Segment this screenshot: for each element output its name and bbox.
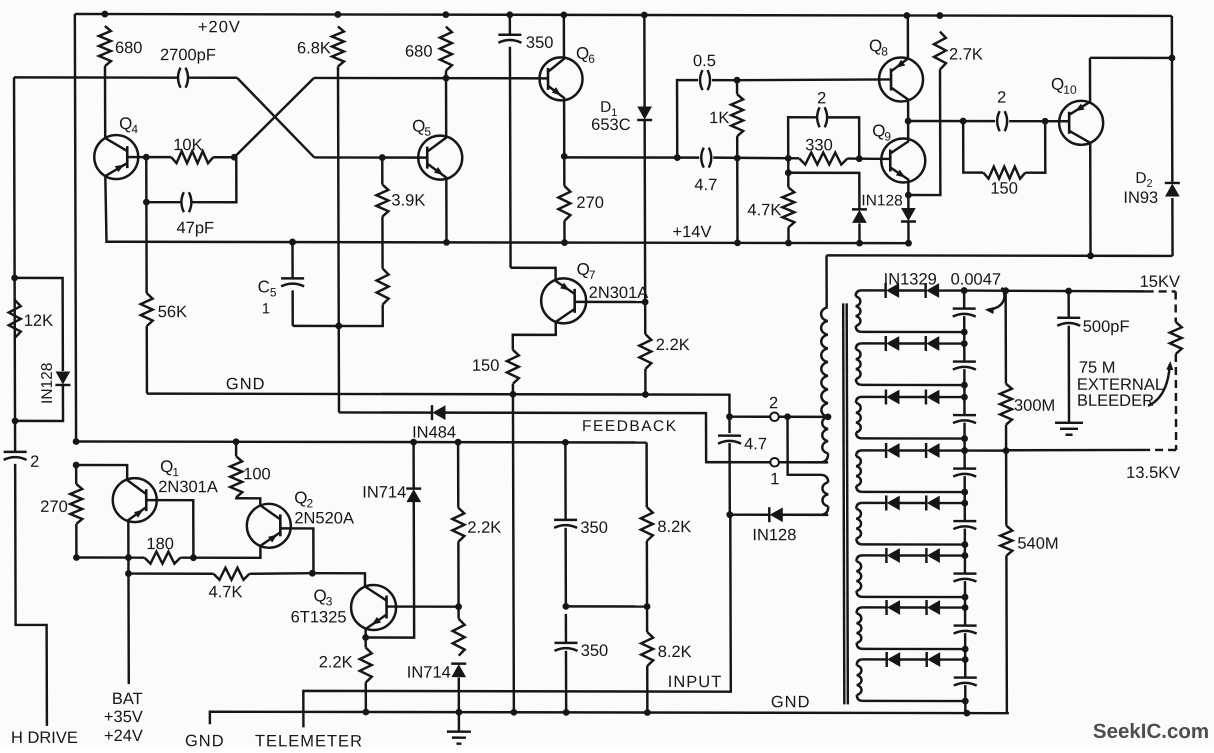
svg-text:INPUT: INPUT [668, 673, 723, 691]
svg-text:IN128: IN128 [39, 363, 56, 404]
node dot Q1 collector branch [73, 462, 80, 469]
wire 2.7K column [908, 69, 940, 195]
capacitor 2700pF [178, 68, 188, 88]
label 4.7 vertical [744, 435, 767, 453]
wire ladder mid link [566, 605, 647, 608]
label BLEEDER [1077, 392, 1154, 410]
capacitor 4.7 vertical [718, 417, 741, 515]
svg-text:7: 7 [589, 268, 596, 282]
wire FEEDBACK line right [445, 413, 770, 463]
transistor Q4 base bar [126, 146, 129, 168]
diode IN128 bottom [769, 507, 782, 522]
label 4.7 series [694, 176, 717, 194]
wire 680 to Q4 collector [104, 66, 107, 138]
svg-text:5: 5 [424, 125, 431, 139]
capacitors 0.0047 stack [953, 309, 977, 686]
transistor Q3 base bar [385, 596, 388, 619]
wire 4.7K line [128, 573, 312, 574]
wire secondary 5 bottom [862, 543, 965, 546]
svg-text:270: 270 [40, 498, 68, 516]
svg-text:0.0047: 0.0047 [951, 271, 1002, 289]
svg-text:270: 270 [576, 194, 604, 212]
node dot Q6 emitter node [561, 153, 568, 160]
capacitor 500pF [1057, 318, 1080, 326]
diode D1 [637, 107, 652, 120]
svg-text:13.5KV: 13.5KV [1126, 464, 1180, 482]
node dot Q7 base [642, 299, 649, 306]
node dot stage 4 bottom [961, 489, 968, 496]
svg-text:IN1329: IN1329 [884, 270, 937, 288]
wire 350cap to Q7 emitter [511, 268, 556, 281]
resistor unlabeled below 3.9K [377, 269, 389, 305]
wire Q3 base lead [387, 605, 459, 608]
node dot stage 2 top [961, 340, 968, 347]
node dot stage 1 bottom [961, 329, 968, 336]
svg-text:6.8K: 6.8K [297, 39, 331, 57]
diode IN1329 8b [927, 652, 940, 667]
svg-text:2N301A: 2N301A [589, 284, 649, 302]
label Q10 [1051, 75, 1077, 97]
resistor 270 (Q6) [558, 156, 570, 242]
transistor Q2 collector inner [260, 505, 280, 519]
svg-text:2: 2 [30, 453, 39, 471]
wire 1K to +14V [736, 158, 739, 243]
label 10K [173, 136, 202, 154]
resistor 2.2K (Q7 base) [639, 302, 651, 395]
label 56K [158, 303, 187, 321]
wire terminal1 line [706, 461, 828, 464]
svg-text:TELEMETER: TELEMETER [255, 732, 363, 748]
label 13.5KV [1126, 464, 1180, 482]
label GND bottom-right [771, 693, 811, 711]
label 2.2K Q7 [656, 336, 690, 354]
transistor Q10 emitter top [1069, 58, 1090, 115]
diode D2 [1165, 183, 1180, 196]
svg-text:330: 330 [805, 136, 833, 154]
node dot 4.7K branch [785, 169, 792, 176]
svg-text:9: 9 [884, 129, 891, 143]
wire 540M bottom [1005, 556, 1008, 714]
transistor Q4 emitter [105, 163, 127, 176]
winding secondary 7 [857, 607, 863, 649]
node dot primary tap [825, 413, 832, 420]
transistor Q5 emitter [427, 164, 446, 243]
svg-text:8.2K: 8.2K [657, 518, 691, 536]
label GND bottom-left [185, 732, 225, 750]
svg-text:540M: 540M [1017, 535, 1058, 553]
resistor 4.7K [782, 187, 794, 243]
svg-text:1K: 1K [709, 109, 729, 127]
diode IN1329 6b [926, 548, 939, 563]
svg-text:IN128: IN128 [861, 192, 902, 209]
node dot 500pF top [1065, 288, 1072, 295]
capacitor 350 b [554, 643, 577, 651]
svg-text:IN93: IN93 [1123, 189, 1158, 207]
svg-text:75 M: 75 M [1079, 359, 1116, 377]
node dot stage 5 bottom [961, 541, 968, 548]
winding secondary 6 [856, 555, 862, 597]
label 350 a [580, 519, 608, 537]
transistor Q6 emitter [548, 86, 564, 157]
label 680 second [405, 43, 433, 61]
label 2.7K [949, 46, 983, 64]
label +24V [104, 727, 143, 745]
transistor Q8 base bar [890, 68, 893, 90]
svg-text:12K: 12K [24, 312, 53, 330]
label IN128 pair [861, 192, 902, 209]
node dot stage 2 bottom [961, 382, 968, 389]
svg-text:1: 1 [262, 300, 270, 317]
label 47pF [176, 219, 214, 237]
wire 4.7K column [787, 158, 790, 187]
capacitor 47pF [181, 192, 191, 212]
transistor Q6 base bar [547, 68, 550, 90]
node dot cap4.7 top [726, 413, 733, 420]
wire secondary 8 top [863, 658, 966, 661]
transistor Q5 collector [427, 78, 446, 152]
wire left H-drive vertical [14, 77, 47, 726]
resistor 330 [799, 152, 847, 164]
wire 300M bottom [1005, 425, 1008, 451]
node dot stage 8 top [962, 656, 969, 663]
label 100 [243, 465, 271, 483]
wire Q10 base line [908, 120, 1069, 123]
label 15KV [1140, 273, 1180, 291]
svg-text:IN484: IN484 [412, 424, 456, 442]
svg-text:IN128: IN128 [752, 526, 796, 544]
capacitor 350 (top) [498, 35, 521, 43]
label C5 value 1 [262, 300, 270, 317]
node dots y442 [73, 438, 569, 446]
label Q1 [160, 457, 179, 479]
wire bleeder dashed lower [1146, 354, 1176, 450]
node dot stage 7 bottom [962, 646, 969, 653]
wire secondary 7 top [863, 606, 966, 609]
wire +20V top rail [75, 14, 1172, 16]
resistor 1K [731, 80, 743, 158]
wire secondary 2 top [862, 342, 965, 345]
svg-text:4.7: 4.7 [744, 435, 767, 453]
node dot Q9 emitter [905, 192, 912, 199]
node dots 180 [125, 554, 197, 561]
svg-text:4.7K: 4.7K [208, 583, 242, 601]
wire 2700pF line [14, 76, 237, 79]
svg-text:2: 2 [817, 89, 826, 107]
label 270 Q6 [576, 194, 604, 212]
wire INPUT line [303, 514, 731, 728]
wire Q1 base [146, 500, 193, 558]
winding secondary 8 [857, 659, 863, 701]
resistor 150 (Q10) [983, 167, 1025, 179]
wire Q2 base [280, 528, 313, 573]
wire Q3 collector feed [312, 573, 365, 586]
wire FEEDBACK line [339, 411, 431, 414]
diode IN1329 3b [926, 390, 939, 405]
label 2N520A [294, 509, 354, 527]
diode IN1329 3a [886, 389, 899, 404]
wire 2-cap loop [788, 117, 859, 158]
diode IN714 b [451, 664, 466, 677]
wire secondary 2 bottom [862, 384, 965, 387]
node dot Q10 collector bottom [1087, 252, 1094, 259]
node dot stage 5 top [961, 500, 968, 507]
transistor Q7 circle [541, 278, 586, 323]
wire IN128 bottom line [730, 513, 829, 516]
svg-text:2.2K: 2.2K [319, 653, 353, 671]
label 8.2K a [657, 518, 691, 536]
label 300M [1014, 397, 1055, 415]
node dot BAT 4.7K [125, 570, 132, 577]
label 150 Q10 [990, 180, 1018, 198]
transistor Q2 circle [247, 504, 291, 548]
wire Q4 emitter to +14V rail [105, 176, 908, 243]
svg-text:SeekIC.com: SeekIC.com [1093, 720, 1209, 743]
transistor Q10 base bar [1068, 112, 1071, 134]
wire D2 column [1171, 16, 1174, 256]
label +35V [104, 708, 143, 726]
svg-text:BLEEDER: BLEEDER [1077, 392, 1154, 410]
wire 13.5KV line [965, 450, 1147, 451]
node dot stage 7 top [962, 604, 969, 611]
resistor 2.7K [934, 32, 946, 70]
label IN128 bottom [752, 526, 796, 544]
label 270 Q1 [40, 498, 68, 516]
label Q9 [872, 121, 891, 143]
resistor 75M bleeder [1170, 322, 1182, 354]
wire 100 to Q2 [236, 497, 260, 505]
svg-text:10K: 10K [173, 136, 202, 154]
label Q4 [119, 114, 138, 136]
diode IN128 a [852, 209, 867, 222]
wire 350 column [564, 442, 567, 712]
svg-text:8: 8 [881, 44, 888, 58]
label IN714 a [362, 484, 406, 502]
svg-text:2.7K: 2.7K [949, 46, 983, 64]
label BAT [112, 690, 143, 708]
label 12K [24, 312, 53, 330]
wire 0.5 branch [677, 80, 737, 158]
node dots ladder [562, 603, 650, 610]
transistor Q9 circle [881, 138, 925, 182]
label D1 [600, 99, 617, 119]
diode IN1329 6a [886, 548, 899, 563]
svg-text:180: 180 [146, 535, 174, 553]
transistor Q9 emitter [890, 167, 908, 195]
wire Q7 base [575, 301, 646, 304]
wire 3.9K mid [381, 217, 384, 269]
node top-rail junction dots [101, 11, 943, 19]
svg-text:FEEDBACK: FEEDBACK [582, 418, 678, 435]
resistor 10K [146, 151, 234, 163]
winding primary section B [779, 417, 828, 463]
label Q7 [577, 260, 596, 282]
label 2 (left cap) [30, 453, 39, 471]
wire secondary 7 bottom [863, 648, 966, 651]
transistor Q1 collector inner [127, 480, 146, 494]
resistor 4.7K (Q3) [213, 568, 249, 580]
winding secondary 2 [856, 343, 862, 385]
wire IN714b to rail [457, 664, 460, 732]
capacitor 350 a [554, 520, 577, 528]
label 2.2K bias [467, 519, 501, 537]
diode IN1329 4a [886, 443, 899, 458]
node dots +14V [289, 239, 912, 247]
wire Q5 base line [314, 156, 427, 159]
transistor Q6 collector [548, 15, 564, 72]
label 6T1325 [291, 608, 347, 626]
svg-text:+24V: +24V [104, 727, 143, 745]
svg-text:680: 680 [115, 39, 143, 57]
winding secondary 3 [856, 397, 862, 439]
wire Q4 base lead [127, 156, 146, 158]
resistor 12K [9, 300, 21, 338]
svg-text:3.9K: 3.9K [391, 192, 425, 210]
svg-text:D: D [1135, 170, 1146, 187]
label 2N301A Q1 [158, 478, 218, 496]
resistor 3.9K [376, 158, 388, 217]
label 2 over330 [817, 89, 826, 107]
resistor 300M [1000, 384, 1012, 425]
wire D1 column [643, 15, 646, 302]
svg-text:6: 6 [588, 52, 595, 66]
label 2N301A Q7 [589, 284, 649, 302]
node dot D2 top [1169, 55, 1176, 62]
resistor 8.2K a [641, 507, 653, 541]
node dot Q4 base node [143, 154, 150, 161]
node dot Q3 base node [455, 603, 462, 610]
resistor 180 [144, 552, 180, 564]
node dot 270 bottom [73, 554, 80, 561]
winding secondary 4 [856, 450, 862, 492]
label +14V [672, 223, 711, 241]
svg-text:2.2K: 2.2K [656, 336, 690, 354]
label Q8 [869, 36, 888, 58]
wire 6.8K vertical [338, 66, 339, 412]
resistor 270 (Q1) [70, 465, 82, 558]
transistor Q3 circle [351, 585, 396, 630]
label IN93 [1123, 189, 1158, 207]
svg-text:4: 4 [131, 122, 138, 136]
label 0.0047 [951, 271, 1002, 289]
transistor Q8 collector [891, 87, 908, 121]
node dot 3.9K top [379, 154, 386, 161]
wire 150 to GND line [512, 384, 514, 395]
resistor 680 (Q5 collector load) [440, 27, 452, 71]
diode IN1329 5b [926, 496, 939, 511]
resistor 2.2K (bias) [452, 442, 464, 607]
diode IN1329 7b [927, 600, 940, 615]
wire 500pF column [1067, 291, 1070, 423]
transistor Q4 collector [105, 138, 127, 151]
svg-text:350: 350 [581, 642, 609, 660]
wire GND line [147, 394, 730, 417]
capacitor 2 (Q10) [997, 111, 1007, 131]
wire HV right column top [1004, 291, 1007, 384]
pointer bleeder arrow [1148, 361, 1174, 406]
wire Q2 emitter line [193, 546, 260, 558]
label C5 [258, 277, 277, 299]
svg-text:10: 10 [1063, 83, 1077, 97]
svg-text:2: 2 [997, 89, 1006, 107]
svg-text:2.2K: 2.2K [467, 519, 501, 537]
transistor Q7 emitter [556, 281, 575, 294]
svg-text:IN714: IN714 [407, 664, 451, 682]
pointer 0.0047 arrow [985, 288, 1005, 314]
label IN714 b [407, 664, 451, 682]
node dot 13.5KV node [1003, 447, 1010, 454]
svg-text:3: 3 [326, 594, 333, 608]
diode IN714 a [406, 489, 421, 502]
label IN128 rotated [39, 363, 56, 404]
capacitor 2 (left line) [4, 452, 27, 460]
resistor 2.2K (Q3) [360, 637, 372, 712]
label 4.7K Q3 [208, 583, 242, 601]
resistor 540M [1000, 526, 1012, 556]
wire 15KV dashed [1146, 291, 1176, 322]
label terminal 2 [769, 394, 778, 412]
diode IN128 b [901, 208, 916, 221]
transistor Q8 circle [879, 57, 923, 101]
wire 56K column [145, 202, 148, 394]
terminal circle 1 [770, 458, 779, 467]
wire 180 line [76, 556, 193, 559]
label IN1329 [884, 270, 937, 288]
resistor 8.2K b [641, 632, 653, 666]
label terminal 1 [770, 470, 779, 488]
svg-text:D: D [600, 99, 611, 116]
diode IN1329 8a [887, 652, 900, 667]
transformer core [843, 303, 848, 704]
label TELEMETER [255, 732, 363, 750]
svg-text:H DRIVE: H DRIVE [11, 729, 78, 747]
transistor Q2 base bar [279, 514, 282, 536]
node dot Q5 collector node [443, 75, 450, 82]
label INPUT [668, 673, 723, 691]
transistor Q1 emitter [128, 507, 146, 558]
diode IN484 [432, 405, 445, 420]
svg-text:47pF: 47pF [176, 219, 214, 237]
svg-text:+35V: +35V [104, 708, 143, 726]
node dot Q2 base node [309, 570, 316, 577]
capacitor 0.5 [700, 70, 710, 90]
node dot Q8Q9 node [905, 118, 912, 125]
transistor Q4 circle [94, 135, 138, 179]
transistor Q6 circle [539, 57, 582, 100]
svg-text:150: 150 [990, 180, 1018, 198]
svg-text:350: 350 [580, 519, 608, 537]
transistor Q2 emitter [260, 532, 280, 546]
svg-text:350: 350 [526, 34, 554, 52]
capacitor C5 [281, 278, 304, 286]
svg-text:15KV: 15KV [1140, 273, 1180, 291]
node dot stage 8 bottom [962, 698, 969, 705]
transistor Q3 emitter [366, 615, 387, 638]
label 75M [1079, 359, 1116, 377]
wire secondary 6 top [862, 554, 965, 557]
svg-text:2700pF: 2700pF [160, 46, 216, 64]
diode IN1329 7a [887, 600, 900, 615]
wire secondary 8 bottom [863, 700, 966, 703]
wire IN128 first branch [788, 173, 859, 243]
svg-text:1: 1 [770, 470, 779, 488]
wire main feedback bus y442 [76, 441, 647, 442]
transistor Q9 collector [890, 121, 908, 154]
svg-text:GND: GND [185, 732, 225, 748]
node dot 6.8K/C5 junction [335, 323, 342, 330]
node dot cap4.7 bottom [726, 511, 733, 518]
label 330 [805, 136, 833, 154]
node dots GND line [510, 391, 649, 398]
